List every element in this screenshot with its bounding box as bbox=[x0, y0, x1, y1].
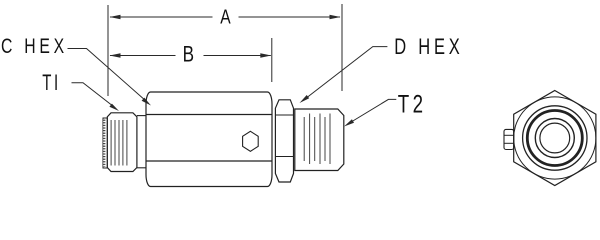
svg-text:A: A bbox=[220, 6, 230, 28]
svg-text:D HEX: D HEX bbox=[394, 35, 463, 60]
svg-text:TI: TI bbox=[42, 70, 61, 95]
svg-text:C HEX: C HEX bbox=[1, 34, 68, 58]
svg-text:B: B bbox=[183, 43, 194, 68]
svg-text:T2: T2 bbox=[398, 90, 427, 118]
